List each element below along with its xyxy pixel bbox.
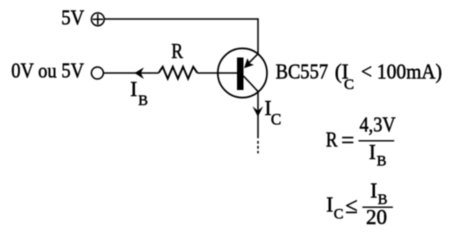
svg-text:C: C — [271, 111, 281, 128]
svg-text:≤: ≤ — [345, 193, 357, 218]
svg-text:I: I — [326, 192, 333, 216]
svg-text:20: 20 — [366, 205, 387, 229]
svg-text:B: B — [377, 153, 387, 169]
svg-text:R: R — [171, 39, 183, 63]
svg-text:C: C — [344, 77, 354, 93]
svg-text:R: R — [326, 127, 338, 151]
svg-text:I: I — [370, 179, 377, 203]
svg-text:B: B — [138, 93, 148, 109]
svg-text:BC557: BC557 — [276, 59, 329, 83]
svg-text:4,3V: 4,3V — [360, 112, 396, 136]
svg-text:< 100mA): < 100mA) — [361, 59, 442, 83]
svg-text:5V: 5V — [61, 6, 84, 30]
svg-text:I: I — [369, 140, 376, 164]
svg-text:C: C — [334, 206, 344, 222]
svg-text:0V ou 5V: 0V ou 5V — [11, 59, 84, 83]
svg-text:I: I — [130, 77, 137, 101]
svg-text:=: = — [341, 128, 354, 153]
